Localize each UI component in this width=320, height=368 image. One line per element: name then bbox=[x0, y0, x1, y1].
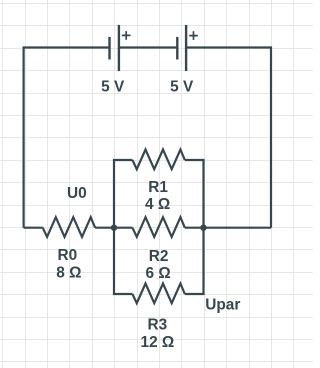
resistor R1 zigzag (4 ohm) bbox=[132, 150, 184, 170]
svg-text:R1: R1 bbox=[148, 179, 168, 196]
wire: lead from left vertical to resistor R0 bbox=[24, 227, 43, 229]
wire: R3 branch left lead bbox=[113, 293, 132, 295]
svg-text:R0: R0 bbox=[58, 247, 78, 264]
battery B1 positive plate bbox=[118, 25, 120, 71]
resistor R0 zigzag (8 ohm) bbox=[43, 217, 95, 237]
plus sign of battery B2 bbox=[189, 31, 198, 40]
svg-text:R3: R3 bbox=[148, 316, 168, 333]
svg-text:5 V: 5 V bbox=[170, 78, 194, 95]
wire: right side vertical bbox=[270, 46, 272, 227]
svg-text:12 Ω: 12 Ω bbox=[141, 334, 175, 351]
wire: bottom-right horizontal to node B bbox=[204, 227, 272, 229]
battery B1 negative plate bbox=[108, 37, 110, 60]
resistor R2 zigzag (6 ohm) bbox=[132, 217, 184, 237]
svg-text:4 Ω: 4 Ω bbox=[145, 196, 170, 213]
wire: R3 branch right lead bbox=[185, 293, 205, 295]
wire: R1 branch left lead bbox=[113, 159, 132, 161]
svg-text:6 Ω: 6 Ω bbox=[146, 265, 171, 282]
svg-text:8 Ω: 8 Ω bbox=[56, 265, 81, 282]
svg-text:R2: R2 bbox=[149, 248, 169, 265]
svg-text:Upar: Upar bbox=[205, 297, 240, 314]
junction node A bbox=[111, 225, 117, 231]
wire: left riser of parallel section bbox=[113, 160, 115, 294]
wire: right riser of parallel section bbox=[202, 160, 204, 294]
junction node B bbox=[200, 225, 206, 231]
wire: from battery B2 to top-right corner bbox=[186, 46, 271, 48]
wire: between battery B1 and battery B2 bbox=[119, 46, 177, 48]
wire: lead from R2 to node B bbox=[185, 227, 204, 229]
svg-text:U0: U0 bbox=[67, 185, 87, 202]
resistor R3 zigzag (12 ohm) bbox=[132, 284, 184, 304]
wire: R1 branch right lead bbox=[185, 159, 205, 161]
wire: top-left segment from left corner to battery B1 bbox=[24, 46, 110, 48]
plus sign of battery B1 bbox=[122, 31, 131, 40]
wire: lead from node A to resistor R2 bbox=[114, 227, 132, 229]
wire: lead from R0 to node A bbox=[95, 227, 114, 229]
battery B2 negative plate bbox=[176, 37, 178, 60]
wire: left side vertical bbox=[23, 46, 25, 227]
battery B2 positive plate bbox=[185, 25, 187, 71]
svg-text:5 V: 5 V bbox=[101, 78, 125, 95]
